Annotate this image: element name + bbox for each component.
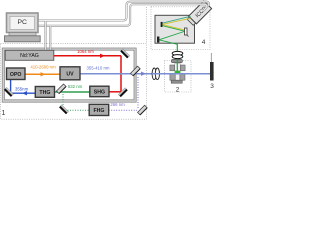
svg-text:PC: PC: [17, 19, 27, 26]
svg-text:1064 nm: 1064 nm: [77, 49, 94, 54]
svg-text:355-410 nm: 355-410 nm: [87, 66, 110, 71]
svg-text:UV: UV: [66, 71, 74, 77]
svg-text:355nm: 355nm: [15, 86, 29, 91]
svg-text:Nd:YAG: Nd:YAG: [20, 53, 39, 59]
svg-text:THG: THG: [39, 90, 50, 96]
svg-text:1: 1: [2, 110, 6, 117]
svg-text:SHG: SHG: [94, 90, 105, 96]
svg-text:4: 4: [202, 39, 206, 46]
svg-text:266 nm: 266 nm: [110, 102, 125, 107]
svg-text:FHG: FHG: [94, 108, 105, 114]
svg-text:OPO: OPO: [10, 72, 22, 78]
svg-text:2: 2: [176, 87, 180, 94]
svg-text:532 nm: 532 nm: [68, 84, 83, 89]
svg-text:3: 3: [210, 83, 214, 90]
svg-text:410-2600 nm: 410-2600 nm: [30, 65, 56, 70]
